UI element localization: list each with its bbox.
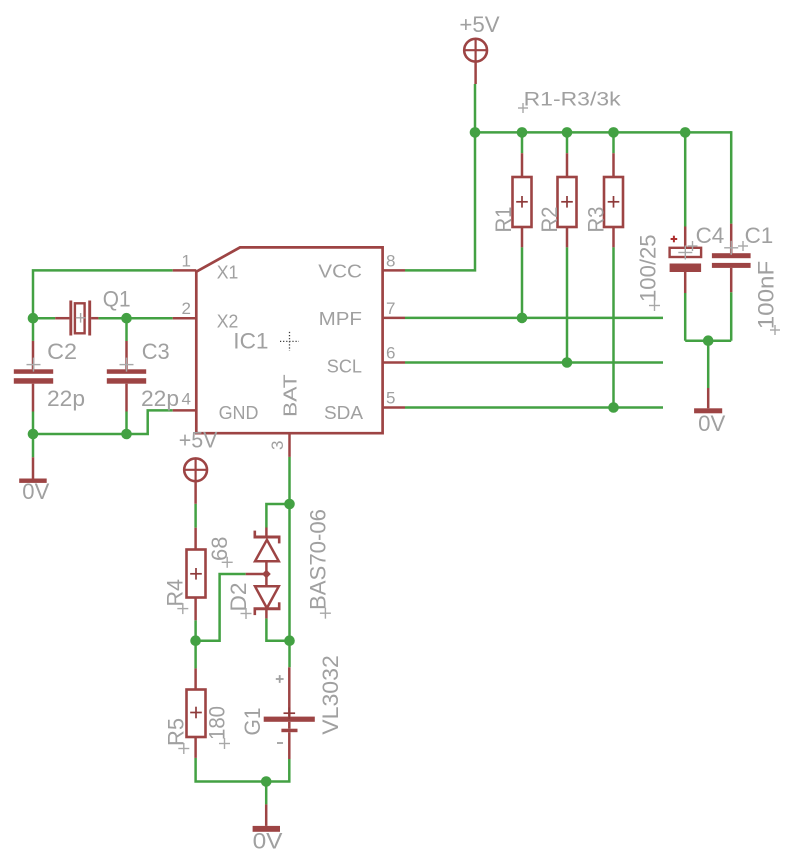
svg-text:C1: C1 — [745, 223, 774, 248]
svg-text:C4: C4 — [696, 223, 725, 248]
wire C3 bottom — [125, 412, 128, 435]
resistor R5 — [187, 668, 206, 758]
svg-text:MPF: MPF — [319, 309, 362, 329]
origin cross R4 — [177, 603, 188, 614]
svg-text:68: 68 — [207, 537, 232, 562]
wire bus corner to C1 top — [730, 132, 731, 223]
wire R2 top — [566, 132, 569, 153]
svg-text:0V: 0V — [253, 829, 283, 854]
wire BAT trunk pin3 to battery — [288, 457, 291, 667]
crystal origin cross — [76, 313, 86, 323]
resistor R3 — [604, 153, 623, 247]
wire R5 top — [194, 641, 197, 669]
wire bottom joining C4 C1 — [685, 339, 731, 342]
svg-text:180: 180 — [205, 706, 230, 740]
svg-text:0V: 0V — [22, 479, 49, 504]
C4 origin cross — [678, 246, 692, 260]
svg-text:VL3032: VL3032 — [318, 655, 343, 735]
origin cross BAS70-06 — [320, 608, 331, 619]
svg-text:8: 8 — [386, 251, 395, 270]
wire C4 top — [684, 132, 687, 226]
junction bus-R3 — [608, 127, 619, 138]
wire C2 bottom — [32, 412, 35, 435]
svg-text:BAS70-06: BAS70-06 — [306, 509, 331, 610]
pin 7 stub — [383, 317, 405, 320]
svg-text:+5V: +5V — [459, 12, 499, 37]
ground 0V left — [19, 457, 47, 483]
wire SCL pin6 — [405, 361, 663, 364]
svg-text:R1-R3/3k: R1-R3/3k — [524, 90, 622, 111]
C3 origin cross — [120, 358, 134, 372]
wire net XTAL1 pin1 — [33, 270, 173, 318]
G1 minus mark — [277, 742, 283, 744]
junction node GND-C2 — [28, 429, 39, 440]
junction MPF-R1 — [517, 313, 528, 324]
svg-text:22p: 22p — [141, 386, 179, 411]
svg-text:GND: GND — [219, 403, 259, 423]
wire bottom ground stem — [265, 782, 268, 805]
IC1 origin crosshair — [280, 332, 299, 351]
ground 0V bottom — [253, 804, 280, 831]
origin cross R5 — [178, 743, 189, 754]
svg-text:SCL: SCL — [327, 357, 362, 377]
wire R3 top — [612, 132, 615, 153]
svg-text:R2: R2 — [537, 207, 562, 233]
origin cross C4 label — [688, 241, 698, 251]
wire R1 top — [521, 132, 524, 153]
ground 0V right — [694, 388, 722, 413]
junction node GND-C3 — [121, 429, 132, 440]
wire C3 top — [125, 318, 128, 341]
G1 plus mark — [276, 675, 284, 683]
origin cross 100nF — [770, 325, 780, 335]
wire C4 bottom — [684, 293, 687, 341]
svg-text:5: 5 — [386, 389, 395, 408]
junction bus-5V — [470, 127, 481, 138]
junction bus-C4 — [680, 127, 691, 138]
wire R5 bottom to battery minus — [196, 758, 290, 782]
svg-text:C2: C2 — [47, 339, 77, 364]
C1 origin cross — [724, 241, 738, 255]
pin 2 stub — [173, 317, 197, 320]
svg-text:Q1: Q1 — [103, 287, 131, 312]
origin cross D2 — [241, 608, 252, 619]
wire D2 bottom connection — [266, 618, 289, 640]
wire MPF pin7 — [405, 317, 663, 320]
origin cross C1 label — [738, 241, 748, 251]
wire left ground stem — [32, 434, 35, 457]
svg-text:R1: R1 — [491, 207, 516, 233]
capacitor C2 — [14, 341, 53, 412]
resistor R4 — [187, 528, 206, 621]
wire D2 top connection — [266, 504, 289, 528]
wire +5V2 to R4 — [194, 504, 197, 528]
wire C2 top — [32, 318, 35, 341]
capacitor C4 electrolytic — [670, 227, 702, 294]
wire SDA pin5 — [405, 406, 663, 409]
svg-text:R4: R4 — [163, 579, 188, 607]
junction node XTAL1 — [28, 313, 39, 324]
junction SCL-R2 — [562, 357, 573, 368]
G1 origin cross red — [284, 707, 296, 719]
wire R4 bottom — [194, 620, 197, 640]
pin 8 stub — [383, 269, 405, 272]
supply +5V symbol 2 — [183, 458, 208, 504]
wire +5V bus — [475, 131, 731, 134]
wire R2 bottom to SCL — [566, 247, 569, 362]
diode D2 BAS70-06 dual schottky — [246, 528, 281, 619]
svg-text:100nF: 100nF — [753, 261, 778, 330]
svg-text:100/25: 100/25 — [636, 234, 661, 302]
svg-text:1: 1 — [182, 251, 191, 270]
wire C1 bottom — [730, 292, 733, 341]
wire crystal left — [33, 317, 55, 320]
svg-text:R3: R3 — [584, 207, 609, 233]
svg-text:VCC: VCC — [318, 262, 362, 282]
svg-text:BAT: BAT — [280, 374, 300, 417]
junction bus-R1 — [517, 127, 528, 138]
svg-text:4: 4 — [182, 390, 191, 409]
svg-text:R5: R5 — [164, 718, 189, 746]
crystal Q1 — [55, 301, 98, 336]
battery G1 — [264, 667, 315, 759]
pin 1 stub — [173, 269, 197, 272]
junction right ground node — [703, 335, 714, 346]
svg-text:7: 7 — [386, 299, 395, 318]
svg-text:22p: 22p — [47, 386, 85, 411]
svg-text:6: 6 — [386, 344, 395, 363]
svg-text:C3: C3 — [142, 339, 170, 364]
wire crystal right to pin2 — [98, 317, 172, 320]
svg-text:D2: D2 — [226, 583, 251, 612]
junction trunk-D2 top — [284, 499, 295, 510]
pin 6 stub — [383, 361, 405, 364]
svg-text:+5V: +5V — [179, 428, 218, 453]
origin cross R1-R3/3k — [518, 103, 528, 113]
pin 3 stub — [288, 433, 291, 457]
junction node XTAL2 — [121, 313, 132, 324]
wire GND jog to pin4 — [33, 410, 173, 434]
junction bus-R2 — [562, 127, 573, 138]
pin 5 stub — [383, 406, 405, 409]
junction R4-R5 node — [190, 635, 201, 646]
svg-text:G1: G1 — [240, 708, 265, 736]
junction bottom ground node — [261, 776, 272, 787]
origin cross 180 — [219, 738, 230, 749]
resistor R1 — [513, 153, 532, 247]
wire D2 mid to R4/R5 node — [196, 574, 246, 641]
pin 4 stub — [173, 409, 197, 412]
svg-text:X1: X1 — [217, 262, 239, 282]
C2 origin cross — [27, 358, 41, 372]
origin cross 68 — [222, 557, 233, 568]
supply +5V symbol 1 — [463, 38, 488, 84]
capacitor C3 — [107, 341, 146, 412]
junction trunk-D2 bottom — [284, 635, 295, 646]
D2 mid junction dot — [262, 570, 271, 579]
wire +5V to VCC pin8 — [405, 84, 475, 270]
svg-text:2: 2 — [182, 299, 191, 318]
wire right ground stem — [707, 341, 710, 388]
junction SDA-R3 — [608, 402, 619, 413]
IC IC1 body — [196, 247, 382, 433]
svg-text:0V: 0V — [698, 411, 726, 436]
capacitor C1 — [712, 224, 751, 293]
wire R3 bottom to SDA — [612, 247, 615, 407]
svg-text:3: 3 — [268, 441, 287, 450]
svg-text:X2: X2 — [217, 311, 239, 331]
wire R1 bottom to MPF — [521, 247, 524, 318]
svg-text:SDA: SDA — [324, 403, 363, 423]
origin cross 100/25 — [649, 300, 660, 311]
svg-text:IC1: IC1 — [233, 329, 268, 354]
C4 polarity plus — [671, 236, 678, 243]
resistor R2 — [558, 153, 577, 247]
